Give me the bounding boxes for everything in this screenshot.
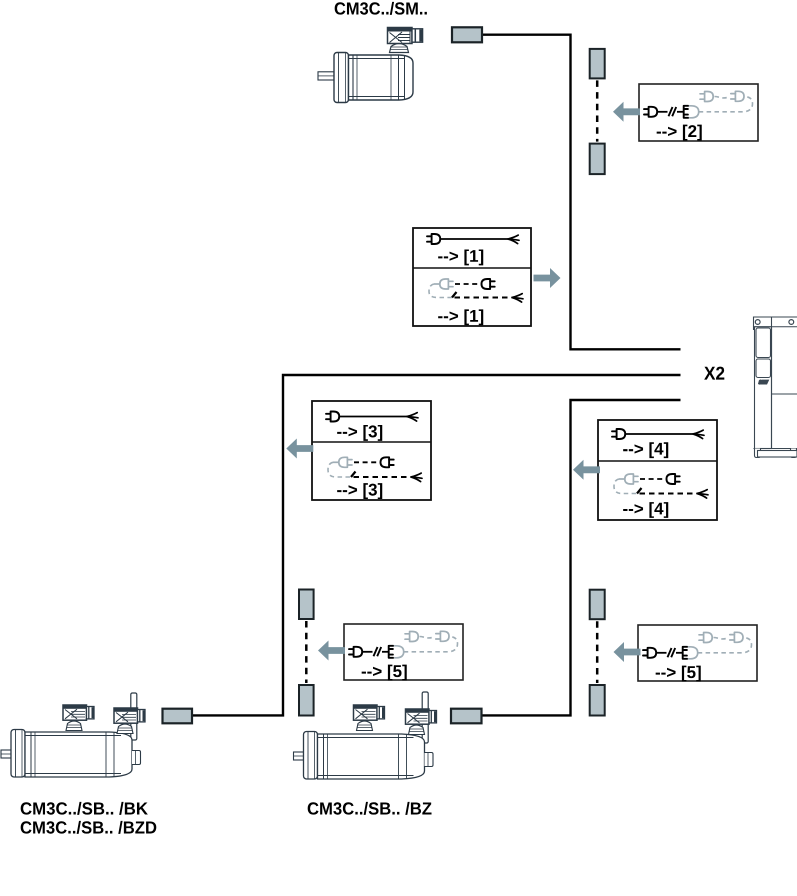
label CM3C../SB.. /BZ [308, 802, 432, 815]
inline connector pair (top right) [590, 49, 605, 174]
extension cable icon (dashed) [333, 461, 339, 463]
inline connector pair (bottom right) [590, 590, 605, 716]
motor CM3C../SB.. (/BK /BZD) [1, 693, 145, 777]
cable box [3] [312, 401, 431, 500]
wire: motor SM cable to X2 (top) [482, 35, 681, 350]
jumper cable icon [644, 107, 657, 117]
cable box [4] [598, 420, 717, 520]
motor CM3C../SM.. [318, 28, 423, 103]
cable icon: plug to open wire ends [612, 429, 625, 439]
connector on BZ motor cable [451, 709, 482, 724]
jumper cable icon [349, 647, 362, 657]
arrow from box [5] to connector pair (left) [318, 641, 345, 661]
extension cable icon (dashed) [404, 637, 458, 652]
cable box [1] [413, 228, 531, 326]
connector on BK motor cable [163, 709, 193, 724]
connector on SM motor cable [452, 27, 482, 42]
arrow from box [2] to connector pair [613, 102, 640, 122]
extension cable icon (dashed) [619, 478, 625, 480]
cable box [2] [639, 84, 758, 141]
label CM3C../SB.. /BK [21, 802, 148, 815]
wire: X2 to motor BZ (lower) [482, 400, 681, 715]
inline connector pair (bottom left) [299, 590, 314, 716]
arrow out of box [1] [534, 268, 561, 288]
label X2 [704, 367, 724, 380]
arrow out of box [4] [573, 460, 600, 480]
cable icon: plug to open wire ends [427, 234, 440, 244]
arrow from box [5] to connector pair (right) [614, 642, 641, 662]
extension cable icon (dashed) [699, 97, 753, 112]
cable box [5] (left) [344, 624, 463, 681]
extension cable icon (dashed) [434, 283, 440, 285]
label CM3C../SB.. /BZD [21, 821, 157, 834]
label CM3C../SM.. [335, 2, 427, 15]
arrow out of box [3] [286, 439, 313, 459]
drive unit X2 [754, 317, 797, 458]
motor CM3C../SB.. (/BZ) [294, 692, 437, 779]
cable box [5] (right) [638, 625, 757, 682]
extension cable icon (dashed) [698, 638, 752, 653]
wire: X2 to motor BK (middle) [192, 375, 681, 715]
jumper cable icon [643, 648, 656, 658]
cable icon: plug to open wire ends [326, 412, 339, 422]
